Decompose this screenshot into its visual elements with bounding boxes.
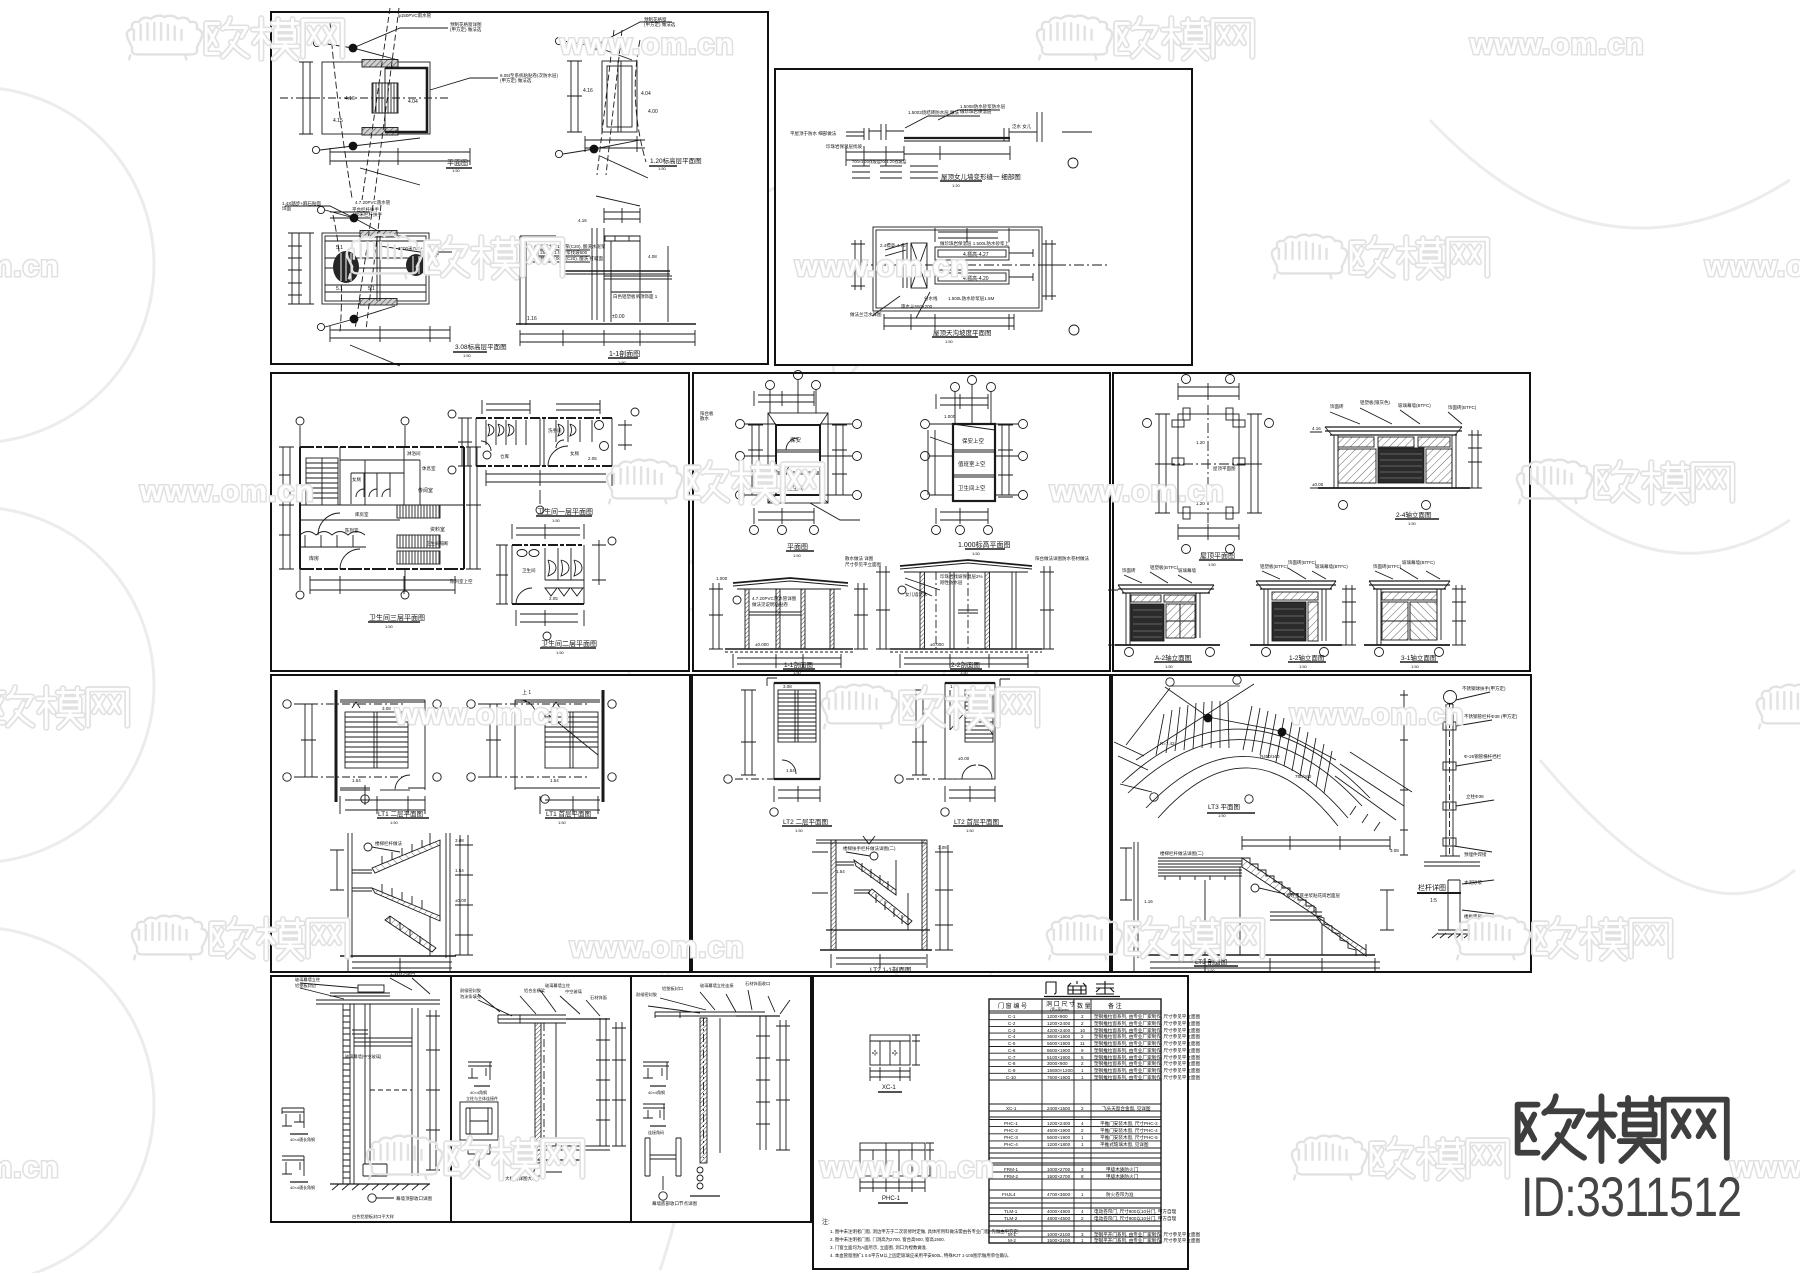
svg-text:1:50: 1:50 <box>795 828 804 833</box>
svg-text:5.1: 5.1 <box>336 286 343 292</box>
svg-text:3.08: 3.08 <box>783 684 792 689</box>
svg-text:1.54: 1.54 <box>352 778 361 783</box>
watermark row 4 <box>0 685 1800 731</box>
svg-text:珍珠岩保温层找坡: 珍珠岩保温层找坡 <box>826 143 862 150</box>
svg-text:1.16: 1.16 <box>1144 899 1153 904</box>
svg-text:幕墙顶部收口详图: 幕墙顶部收口详图 <box>396 1195 432 1202</box>
svg-text:饰面: 饰面 <box>282 205 291 212</box>
svg-text:卫生间上空: 卫生间上空 <box>958 484 986 492</box>
svg-text:休息室: 休息室 <box>422 465 436 472</box>
svg-text:4200×2400: 4200×2400 <box>1047 1028 1071 1033</box>
svg-text:5600×1900: 5600×1900 <box>1047 1135 1071 1140</box>
svg-text:1-1剖面图: 1-1剖面图 <box>784 660 813 669</box>
svg-text:铝塑板(BTFC): 铝塑板(BTFC) <box>1150 564 1179 571</box>
svg-text:4800×4500: 4800×4500 <box>1047 1216 1071 1221</box>
sheet 1 roof plan detail <box>280 8 498 200</box>
svg-text:1: 1 <box>1081 1142 1084 1147</box>
svg-text:8: 8 <box>1081 1174 1084 1179</box>
svg-text:LT3 平面图: LT3 平面图 <box>1208 803 1240 811</box>
svg-text:石材饰面收口: 石材饰面收口 <box>745 980 770 987</box>
svg-text:电动卷帘门, 尺寸900以10分门, 甲方自理: 电动卷帘门, 尺寸900以10分门, 甲方自理 <box>1094 1208 1177 1215</box>
svg-text:1:5: 1:5 <box>1430 898 1437 904</box>
svg-text:玻璃幕墙立柱: 玻璃幕墙立柱 <box>295 976 321 983</box>
svg-text:做法兰泛水详图: 做法兰泛水详图 <box>850 311 882 318</box>
svg-text:4.00: 4.00 <box>648 109 658 115</box>
svg-text:1:20: 1:20 <box>952 183 961 188</box>
svg-text:2: 2 <box>1081 1106 1084 1111</box>
watermark row 2 <box>0 235 1800 283</box>
sheet 4 section 1-1 <box>709 578 868 669</box>
svg-text:塑钢推拉窗系列, 由专业厂家制作, 尺寸参见平立面图: 塑钢推拉窗系列, 由专业厂家制作, 尺寸参见平立面图 <box>1094 1074 1201 1081</box>
svg-text:1: 1 <box>1081 1075 1084 1080</box>
svg-text:尺寸参见平立面图: 尺寸参见平立面图 <box>845 561 881 568</box>
sheet 12 notes <box>822 1218 1019 1259</box>
svg-text:1:50: 1:50 <box>658 166 667 171</box>
svg-text:上 1: 上 1 <box>522 689 531 696</box>
svg-text:±0.00: ±0.00 <box>455 898 467 903</box>
svg-text:库房: 库房 <box>309 555 319 562</box>
svg-text:PHC-4: PHC-4 <box>1004 1142 1018 1147</box>
svg-text:塑钢平开门系列, 由专业厂家制作, 尺寸参见平立面图: 塑钢平开门系列, 由专业厂家制作, 尺寸参见平立面图 <box>1094 1237 1201 1244</box>
svg-text:平面图: 平面图 <box>447 159 468 167</box>
svg-text:C-10: C-10 <box>1006 1075 1016 1080</box>
svg-text:做珍珠岩保温层 1.500L防水砂浆上: 做珍珠岩保温层 1.500L防水砂浆上 <box>940 240 1010 247</box>
svg-text:TLM-2: TLM-2 <box>1004 1216 1018 1221</box>
svg-text:LT1 首层平面图: LT1 首层平面图 <box>546 809 591 818</box>
svg-text:R=7.42: R=7.42 <box>1160 741 1175 746</box>
svg-text:楼梯栏杆做法: 楼梯栏杆做法 <box>375 840 402 847</box>
svg-text:2.4標高-4.70: 2.4標高-4.70 <box>880 242 906 249</box>
sheet 4 upper level plan <box>921 376 1028 550</box>
svg-text:1:50: 1:50 <box>556 650 565 655</box>
svg-text:玻璃幕墙(BTFC): 玻璃幕墙(BTFC) <box>1402 559 1435 566</box>
svg-text:400米栏杆扶手: 400米栏杆扶手 <box>352 211 383 218</box>
svg-text:耐候密封胶: 耐候密封胶 <box>460 987 481 994</box>
svg-text:ID:3311512: ID:3311512 <box>1521 1165 1741 1228</box>
svg-text:塑钢平开门系列, 由专业厂家制作, 尺寸参见平立面图: 塑钢平开门系列, 由专业厂家制作, 尺寸参见平立面图 <box>1094 1231 1201 1238</box>
svg-text:(甲方定) 做法选: (甲方定) 做法选 <box>500 77 532 84</box>
svg-text:栏杆详图: 栏杆详图 <box>1418 883 1446 892</box>
sheet 4 section 2-2 <box>876 560 1054 669</box>
svg-text:5600×1900: 5600×1900 <box>1047 1041 1071 1046</box>
svg-text:1: 1 <box>1081 1192 1084 1197</box>
svg-text:库房室: 库房室 <box>355 511 369 518</box>
sheet 5 roof plan <box>1143 375 1274 561</box>
svg-text:1200×900: 1200×900 <box>1047 1014 1068 1019</box>
svg-text:塑钢推拉窗系列, 由专业厂家制作, 尺寸参见平立面图: 塑钢推拉窗系列, 由专业厂家制作, 尺寸参见平立面图 <box>1094 1027 1201 1034</box>
svg-text:平推门安装木窗, 尺寸PHC-2: 平推门安装木窗, 尺寸PHC-2 <box>1100 1120 1158 1127</box>
svg-text:屋顶女儿墙变形缝一 细部图: 屋顶女儿墙变形缝一 细部图 <box>941 172 1021 181</box>
svg-text:玻璃幕墙立柱连接: 玻璃幕墙立柱连接 <box>700 982 734 989</box>
svg-text:阳台做法详图防水卷材做法: 阳台做法详图防水卷材做法 <box>1035 555 1089 562</box>
svg-text:±0.00: ±0.00 <box>612 314 625 320</box>
svg-text:平面图: 平面图 <box>787 543 808 551</box>
svg-text:5100×1900: 5100×1900 <box>1047 1055 1071 1060</box>
svg-text:1-2轴立面图: 1-2轴立面图 <box>1289 653 1324 662</box>
svg-text:4: 4 <box>1081 1209 1084 1214</box>
svg-text:饰面砖(BTFC): 饰面砖(BTFC) <box>1373 563 1402 570</box>
svg-text:1-1剖面图: 1-1剖面图 <box>609 349 640 358</box>
svg-text:4000×4900: 4000×4900 <box>1047 1209 1071 1214</box>
svg-text:4.7.20PVC落水管详图: 4.7.20PVC落水管详图 <box>752 595 797 602</box>
svg-text:保安: 保安 <box>790 436 802 444</box>
svg-text:(宽×高)mm: (宽×高)mm <box>1050 1007 1069 1012</box>
svg-text:LT2 二层平面图: LT2 二层平面图 <box>783 818 828 826</box>
svg-text:平推门安装木窗, 尺寸PHC-5: 平推门安装木窗, 尺寸PHC-5 <box>1100 1134 1158 1141</box>
svg-text:塑钢推拉窗系列, 由专业厂家制作, 尺寸参见平立面图: 塑钢推拉窗系列, 由专业厂家制作, 尺寸参见平立面图 <box>1094 1013 1201 1020</box>
svg-text:40×4通长角钢: 40×4通长角钢 <box>290 1136 315 1142</box>
sheet 2 roof drain plan <box>851 227 1108 337</box>
svg-text:C-5: C-5 <box>1008 1041 1016 1046</box>
svg-text:卫生间三层平面图: 卫生间三层平面图 <box>369 613 425 622</box>
svg-text:1200×1800: 1200×1800 <box>1047 1142 1071 1147</box>
sheet 4 border <box>693 373 1110 671</box>
svg-text:塑钢推拉窗系列, 由专业厂家制作, 尺寸参见平立面图: 塑钢推拉窗系列, 由专业厂家制作, 尺寸参见平立面图 <box>1094 1020 1201 1027</box>
svg-text:塑钢推拉窗系列, 由专业厂家制作, 尺寸参见平立面图: 塑钢推拉窗系列, 由专业厂家制作, 尺寸参见平立面图 <box>1094 1047 1201 1054</box>
svg-text:R450/160: R450/160 <box>1260 754 1280 759</box>
svg-text:铝塑板(银灰色): 铝塑板(银灰色) <box>1360 399 1390 406</box>
sheet 12 border <box>813 976 1188 1269</box>
svg-text:石材饰面: 石材饰面 <box>590 994 607 1001</box>
watermark row 3 <box>139 460 1732 508</box>
svg-text:平屋顶于防水 细部做法: 平屋顶于防水 细部做法 <box>790 130 837 137</box>
svg-text:40×4角钢: 40×4角钢 <box>648 1089 665 1095</box>
svg-text:4.16: 4.16 <box>1312 426 1321 431</box>
svg-text:PHC-2: PHC-2 <box>1004 1128 1018 1133</box>
svg-text:1:50: 1:50 <box>1207 968 1216 973</box>
sheet 6 stair LT1 second floor plan <box>283 690 441 818</box>
svg-text:电动卷帘门, 尺寸900以10分门, 甲方自理: 电动卷帘门, 尺寸900以10分门, 甲方自理 <box>1094 1215 1177 1222</box>
svg-text:1.54: 1.54 <box>836 869 845 874</box>
svg-text:1:50: 1:50 <box>966 828 975 833</box>
svg-text:C-8: C-8 <box>1008 1061 1016 1066</box>
watermark row 5 <box>132 916 1671 964</box>
svg-text:洗手间: 洗手间 <box>548 427 562 434</box>
svg-text:备 注: 备 注 <box>1108 1002 1122 1010</box>
sheet 4 guard house plan <box>736 371 862 552</box>
sheet 12 schedule table grid <box>989 999 1161 1243</box>
svg-text:屋顶天沟坡度平面图: 屋顶天沟坡度平面图 <box>933 328 992 337</box>
svg-text:PHC-3: PHC-3 <box>1004 1135 1018 1140</box>
svg-text:1.54: 1.54 <box>786 768 795 773</box>
svg-text:1: 1 <box>1081 1135 1084 1140</box>
sheet 5 elevation 3-1 <box>1364 568 1466 662</box>
svg-text:C-7: C-7 <box>1008 1055 1016 1060</box>
sheet 6 stair LT1 section 1-1 <box>330 833 473 972</box>
svg-text:XC-1: XC-1 <box>1006 1106 1017 1111</box>
svg-text:塑钢推拉窗系列, 由专业厂家制作, 尺寸参见平立面图: 塑钢推拉窗系列, 由专业厂家制作, 尺寸参见平立面图 <box>1094 1040 1201 1047</box>
svg-text:4600×1900: 4600×1900 <box>1047 1128 1071 1133</box>
svg-text:1: 1 <box>1081 1238 1084 1243</box>
svg-text:1:50: 1:50 <box>552 518 561 523</box>
svg-text:1.54: 1.54 <box>550 778 559 783</box>
svg-text:散水做法 详图: 散水做法 详图 <box>845 555 874 562</box>
sheet 8 railing detail <box>1400 690 1494 938</box>
svg-text:1:50: 1:50 <box>1299 664 1308 669</box>
svg-text:珍珠岩找坡保温层2%: 珍珠岩找坡保温层2% <box>940 573 983 580</box>
sheet 7 border <box>692 675 1110 972</box>
svg-text:饰面砖(BTFC): 饰面砖(BTFC) <box>1448 404 1477 411</box>
svg-text:甲级木质防火门: 甲级木质防火门 <box>1106 1166 1139 1173</box>
svg-text:2: 2 <box>1081 1216 1084 1221</box>
svg-text:1:50: 1:50 <box>385 624 394 629</box>
svg-text:FHJL4: FHJL4 <box>1002 1192 1016 1197</box>
svg-text:XC-1: XC-1 <box>882 1085 896 1091</box>
svg-text:淋浴间: 淋浴间 <box>407 450 421 457</box>
svg-text:9: 9 <box>1081 1048 1084 1053</box>
sheet 7 stair LT2 second floor plan <box>724 678 832 826</box>
svg-text:塑钢推拉窗系列, 由专业厂家制作, 尺寸参见平立面图: 塑钢推拉窗系列, 由专业厂家制作, 尺寸参见平立面图 <box>1094 1033 1201 1040</box>
svg-text:3: 3 <box>1081 1232 1084 1237</box>
sheet 7 stair LT2 ground floor plan <box>895 679 1010 826</box>
svg-text:4.16: 4.16 <box>578 218 587 223</box>
svg-text:PHC-1: PHC-1 <box>882 1196 901 1202</box>
sheet 11 curtain wall section 3 <box>643 990 790 1200</box>
svg-text:C-3: C-3 <box>1008 1028 1016 1033</box>
sheet 1 roof slab plan <box>555 22 677 178</box>
svg-text:石材封边收口: 石材封边收口 <box>390 971 415 978</box>
watermark row 1 <box>127 16 1645 61</box>
sheet 3 second floor toilet plan <box>496 524 616 648</box>
sheet 1 lower plan detail <box>285 205 487 366</box>
svg-text:立柱Φ38: 立柱Φ38 <box>1466 793 1484 800</box>
svg-text:中空玻璃: 中空玻璃 <box>565 988 582 995</box>
svg-text:卫生间二层平面图: 卫生间二层平面图 <box>541 639 597 648</box>
svg-text:1:50: 1:50 <box>793 553 802 558</box>
svg-text:1200×2400: 1200×2400 <box>1047 1121 1071 1126</box>
svg-text:1:50: 1:50 <box>972 551 981 556</box>
svg-text:1.500L防水砂浆层1.5M: 1.500L防水砂浆层1.5M <box>948 295 995 302</box>
svg-text:3: 3 <box>1081 1167 1084 1172</box>
svg-text:5.1: 5.1 <box>368 286 375 292</box>
svg-text:2-4轴立面图: 2-4轴立面图 <box>1396 510 1431 519</box>
svg-text:塑钢推拉窗系列, 由专业厂家制作, 尺寸参见平立面图: 塑钢推拉窗系列, 由专业厂家制作, 尺寸参见平立面图 <box>1094 1054 1201 1061</box>
svg-text:LT1 二层平面图: LT1 二层平面图 <box>378 810 423 818</box>
svg-text:洞 口 尺 寸: 洞 口 尺 寸 <box>1046 1000 1075 1008</box>
svg-text:1:50: 1:50 <box>618 360 627 365</box>
svg-text:饰面砖(BTFC): 饰面砖(BTFC) <box>1288 559 1317 566</box>
svg-text:±0.00: ±0.00 <box>1312 482 1324 487</box>
svg-text:5: 5 <box>1081 1055 1084 1060</box>
svg-text:2-2剖面图: 2-2剖面图 <box>951 660 980 669</box>
svg-text:值班室上空: 值班室上空 <box>958 460 986 468</box>
svg-text:1.16: 1.16 <box>527 316 537 322</box>
svg-text:玻璃幕墙(BTFC): 玻璃幕墙(BTFC) <box>1398 402 1431 409</box>
svg-text:4.7.20PVC落水管: 4.7.20PVC落水管 <box>355 199 391 206</box>
svg-text:±0.00: ±0.00 <box>958 756 970 761</box>
svg-text:资料室: 资料室 <box>430 526 445 533</box>
svg-text:2.05: 2.05 <box>549 596 558 601</box>
svg-text:1:50: 1:50 <box>1218 813 1227 818</box>
svg-text:2: 2 <box>1081 1021 1084 1026</box>
svg-text:数 量: 数 量 <box>1077 1002 1091 1010</box>
svg-text:750/160: 750/160 <box>1295 774 1312 779</box>
svg-text:1. 图中未注明者门窗, 洞边甲方于二次装修时定做, 具体所: 1. 图中未注明者门窗, 洞边甲方于二次装修时定做, 具体所用料做法需由各专业门… <box>830 1228 1019 1235</box>
svg-text:预埋件焊接: 预埋件焊接 <box>1464 851 1487 858</box>
svg-text:平推式玻璃木窗, 见详图: 平推式玻璃木窗, 见详图 <box>1100 1141 1149 1148</box>
svg-text:4.15: 4.15 <box>333 118 343 124</box>
svg-text:雨水斗550×200: 雨水斗550×200 <box>901 303 933 310</box>
svg-text:2: 2 <box>1081 1014 1084 1019</box>
svg-text:3.08: 3.08 <box>455 838 464 843</box>
svg-text:1.20标高层平面图: 1.20标高层平面图 <box>650 156 702 165</box>
sheet 9 curtain wall section <box>282 978 440 1202</box>
svg-text:LT2 1-1剖面图: LT2 1-1剖面图 <box>870 965 911 974</box>
svg-text:A-2轴立面图: A-2轴立面图 <box>1155 653 1191 662</box>
svg-text:1.000标高平面图: 1.000标高平面图 <box>958 540 1011 549</box>
svg-text:±0.000: ±0.000 <box>755 642 769 647</box>
svg-text:2. 图中未注明者门窗, 门洞高为2700, 窗台高900,: 2. 图中未注明者门窗, 门洞高为2700, 窗台高900, 窗高1900. <box>830 1236 945 1243</box>
sheet 1 border <box>271 12 768 364</box>
svg-text:塑钢推拉窗系列, 由专业厂家制作, 尺寸参见平立面图: 塑钢推拉窗系列, 由专业厂家制作, 尺寸参见平立面图 <box>1094 1067 1201 1074</box>
svg-text:40×4角钢: 40×4角钢 <box>470 1089 487 1095</box>
svg-text:玻璃幕墙(中空玻璃): 玻璃幕墙(中空玻璃) <box>345 1053 382 1060</box>
svg-text:11: 11 <box>1080 1041 1085 1046</box>
svg-text:1:50: 1:50 <box>1208 562 1217 567</box>
svg-text:2: 2 <box>1081 1061 1084 1066</box>
svg-text:1:50: 1:50 <box>390 820 399 825</box>
svg-text:饰面砖: 饰面砖 <box>1122 567 1136 574</box>
svg-text:卫生间一层平面图: 卫生间一层平面图 <box>537 507 593 516</box>
sheet 7 stair LT2 section <box>812 836 953 968</box>
svg-text:卫生间: 卫生间 <box>522 567 536 574</box>
sheet 12 window elevation PHC-1 <box>860 1143 934 1203</box>
svg-text:塑钢推拉窗系列, 由专业厂家制作, 尺寸参见平立面图: 塑钢推拉窗系列, 由专业厂家制作, 尺寸参见平立面图 <box>1094 1060 1201 1067</box>
svg-text:平推门安装木窗, 尺寸PHC-4: 平推门安装木窗, 尺寸PHC-4 <box>1100 1127 1158 1134</box>
sheet 8 border <box>1112 675 1531 972</box>
svg-text:1.000: 1.000 <box>944 414 956 419</box>
sheet 5 border <box>1113 373 1530 671</box>
svg-text:7001.20找坡层: 7001.20找坡层 <box>880 158 906 164</box>
svg-text:φ150PVC雨水管: φ150PVC雨水管 <box>398 12 432 19</box>
svg-text:FRM-2: FRM-2 <box>1004 1174 1018 1179</box>
svg-text:门 窗 编 号: 门 窗 编 号 <box>998 1002 1027 1010</box>
svg-text:素砼打底坐浆贴花岗岩面层: 素砼打底坐浆贴花岗岩面层 <box>1286 892 1340 899</box>
svg-text:2: 2 <box>1081 1034 1084 1039</box>
svg-text:幕墙底部收口节点详图: 幕墙底部收口节点详图 <box>652 1200 697 1207</box>
svg-text:7600×1900: 7600×1900 <box>1047 1075 1071 1080</box>
svg-text:4.04: 4.04 <box>641 91 651 97</box>
svg-text:铝合金横梁: 铝合金横梁 <box>524 987 546 994</box>
svg-text:陈列室: 陈列室 <box>345 527 359 534</box>
watermark row 6 <box>0 1136 1800 1184</box>
sheet 5 elevation 1-2 <box>1250 568 1356 662</box>
svg-text:1000×2100: 1000×2100 <box>1047 1232 1071 1237</box>
svg-text:1.20: 1.20 <box>1196 440 1205 445</box>
sheet 10 border <box>451 976 631 1222</box>
svg-text:1:50: 1:50 <box>558 820 567 825</box>
svg-text:C-6: C-6 <box>1008 1048 1016 1053</box>
svg-text:C-1: C-1 <box>1008 1014 1016 1019</box>
sheet 2 parapet section detail <box>846 110 1092 181</box>
svg-text:1.000: 1.000 <box>716 576 728 581</box>
svg-text:1500×2700: 1500×2700 <box>1047 1174 1071 1179</box>
sheet 6 stair LT1 ground floor plan <box>467 690 616 818</box>
svg-text:(甲方定) 做法选: (甲方定) 做法选 <box>644 21 676 28</box>
svg-text:防火卷帘为准: 防火卷帘为准 <box>1106 1191 1134 1198</box>
svg-text:保安上空: 保安上空 <box>962 437 985 445</box>
sheet 5 elevation A-2 <box>1108 572 1220 662</box>
svg-text:楼梯栏杆做法详图(二): 楼梯栏杆做法详图(二) <box>1160 850 1204 857</box>
svg-text:玻璃幕墙立柱: 玻璃幕墙立柱 <box>545 982 571 989</box>
svg-text:M-2: M-2 <box>1008 1238 1016 1243</box>
svg-text:铝塑板封口: 铝塑板封口 <box>662 985 683 992</box>
svg-text:玻璃幕墙(BTFC): 玻璃幕墙(BTFC) <box>1315 563 1348 570</box>
svg-text:3.08: 3.08 <box>1390 848 1399 853</box>
svg-text:不锈钢管栏杆Φ38 (甲方定): 不锈钢管栏杆Φ38 (甲方定) <box>1464 713 1518 720</box>
svg-text:泛水 女儿: 泛水 女儿 <box>1012 123 1032 130</box>
svg-text:700×1.20找坡层: 700×1.20找坡层 <box>852 158 881 164</box>
svg-text:1:50: 1:50 <box>945 339 954 344</box>
svg-text:白色铝塑板封口平大样: 白色铝塑板封口平大样 <box>352 1213 394 1220</box>
svg-text:饰面砖: 饰面砖 <box>1330 403 1344 410</box>
svg-text:±0.000: ±0.000 <box>930 642 944 647</box>
svg-text:4: 4 <box>1081 1121 1084 1126</box>
svg-text:3.08: 3.08 <box>938 845 947 850</box>
svg-text:注:: 注: <box>822 1218 830 1226</box>
svg-text:楼梯扶手栏杆做法详图(二): 楼梯扶手栏杆做法详图(二) <box>843 845 896 852</box>
svg-text:1:50: 1:50 <box>1408 521 1417 526</box>
sheet 3 third floor toilet plan <box>279 417 481 622</box>
sheet 10 curtain wall section 2 <box>460 990 626 1176</box>
svg-text:PHC-1: PHC-1 <box>1004 1121 1018 1126</box>
svg-text:4.16: 4.16 <box>345 96 355 102</box>
svg-text:3. 门窗立面均为A面所示, 立面图, 洞口为樘数做准.: 3. 门窗立面均为A面所示, 立面图, 洞口为樘数做准. <box>830 1244 927 1251</box>
svg-text:2: 2 <box>1081 1128 1084 1133</box>
svg-text:刚性防水层: 刚性防水层 <box>940 579 963 586</box>
svg-text:做法见说明粘贴卷: 做法见说明粘贴卷 <box>752 601 788 608</box>
sheet 5 elevation 2-4 <box>1310 408 1482 519</box>
svg-text:1000×2700: 1000×2700 <box>1047 1167 1071 1172</box>
svg-text:不锈钢球扶手(甲方定): 不锈钢球扶手(甲方定) <box>1462 685 1506 692</box>
svg-text:C-9: C-9 <box>1008 1068 1016 1073</box>
svg-text:散水: 散水 <box>700 415 709 422</box>
svg-text:连接角码: 连接角码 <box>648 1129 664 1135</box>
svg-text:4.04: 4.04 <box>408 99 418 105</box>
svg-text:Φ-25钢管横杆挡栏: Φ-25钢管横杆挡栏 <box>1464 753 1502 760</box>
svg-text:4700×3600: 4700×3600 <box>1047 1192 1071 1197</box>
site brand large <box>1518 1096 1727 1161</box>
svg-text:做珍珠岩保温层: 做珍珠岩保温层 <box>960 108 992 115</box>
svg-text:仓库: 仓库 <box>500 453 509 460</box>
svg-text:5.1: 5.1 <box>336 245 343 251</box>
svg-text:陈列室上空: 陈列室上空 <box>450 578 473 585</box>
svg-text:女厕: 女厕 <box>352 476 361 483</box>
svg-text:1:50: 1:50 <box>1165 664 1174 669</box>
svg-text:铝塑板封边: 铝塑板封边 <box>295 982 317 989</box>
sheet 12 schedule text <box>998 1000 1201 1244</box>
svg-text:女儿墙泛水: 女儿墙泛水 <box>905 591 928 598</box>
sheet 8 curved stair LT3 plan <box>1114 676 1412 831</box>
svg-text:LT2 首层平面图: LT2 首层平面图 <box>954 817 999 826</box>
svg-text:2400×1500: 2400×1500 <box>1047 1106 1071 1111</box>
sheet 12 window elevation XC-1 <box>870 1035 920 1092</box>
sheet 1 section 1-1 <box>516 196 696 358</box>
svg-text:1:50: 1:50 <box>452 168 461 173</box>
sheet 2 border <box>775 69 1192 365</box>
svg-text:1:50: 1:50 <box>1411 664 1420 669</box>
svg-text:卫生间隔断: 卫生间隔断 <box>426 540 449 547</box>
svg-text:1.54: 1.54 <box>455 868 464 873</box>
svg-text:3.08标高层平面图: 3.08标高层平面图 <box>455 342 507 351</box>
sheet 8 stair LT3 section <box>1120 836 1394 972</box>
svg-text:40×4通长角钢: 40×4通长角钢 <box>290 1184 315 1190</box>
sheet 9 border <box>271 976 451 1222</box>
svg-text:立柱与主体连接件: 立柱与主体连接件 <box>466 1095 498 1101</box>
svg-text:白色铝塑板吊顶饰面 1: 白色铝塑板吊顶饰面 1 <box>613 293 658 300</box>
svg-text:分水线: 分水线 <box>924 295 938 302</box>
svg-text:4. 本血管窗图扩1 0.6平方M以上固定玻璃应采用平安60: 4. 本血管窗图扩1 0.6平方M以上固定玻璃应采用平安600L, 特殊RJT … <box>830 1252 1009 1259</box>
